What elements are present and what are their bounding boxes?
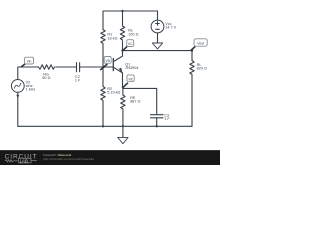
ground bottom [118,137,128,143]
svg-text:1 kHz: 1 kHz [26,87,36,91]
wire VC to Vout [123,51,193,61]
wire Rc branch [122,11,124,26]
svg-text:887 Ω: 887 Ω [130,100,140,104]
svg-text:Vin: Vin [27,60,32,64]
resistor R2 [101,67,105,126]
banner bar [0,150,220,165]
logo CircuitLab [5,154,38,164]
resistor R1 [101,30,105,44]
resistor RL [190,61,194,75]
junction node dots [16,10,193,128]
svg-text:1 F: 1 F [75,78,81,82]
wire RE branch [122,87,124,126]
svg-text:1 F: 1 F [164,117,170,121]
svg-text:2N3904: 2N3904 [125,66,138,70]
resistor RG [39,65,55,69]
flag VE [123,75,134,87]
wire C2 to base node [80,66,104,68]
svg-text:18 kΩ: 18 kΩ [107,36,117,40]
wire bottom rail [18,125,192,127]
svg-text:829 Ω: 829 Ω [197,66,207,70]
source V2 polarity arrow [16,95,19,98]
svg-text:5.19 kΩ: 5.19 kΩ [107,91,120,95]
wire V2 branch [17,67,19,126]
wire RE ground stub [122,126,124,137]
wire Vcc to ground [157,33,159,43]
transistor Q1 [112,59,114,71]
source V2 [11,80,24,93]
flag Vin [21,57,34,67]
source Vcc [151,20,164,33]
flag Vout [191,39,208,51]
resistor Rc [120,26,124,40]
svg-text:http://circuitlab.com/csmdwrbr: http://circuitlab.com/csmdwrbrsas23a [43,157,94,161]
wire RL bottom [191,75,193,127]
wire base to transistor [104,66,114,68]
capacitor C2 [77,63,80,72]
ground under Vcc [152,43,162,49]
svg-text:14.7 V: 14.7 V [165,26,176,30]
flag VB [100,57,111,71]
capacitor C3 [151,115,164,118]
wire emitter to C3 [123,88,157,114]
svg-text:50 Ω: 50 Ω [42,76,50,80]
flag VC [123,40,134,51]
svg-text:LAB: LAB [20,158,28,163]
svg-text:VE: VE [128,77,133,81]
wire input [18,66,77,68]
wire top rail [103,11,158,67]
resistor RE [121,95,125,109]
svg-text:VB: VB [105,59,110,63]
svg-text:100 Ω: 100 Ω [128,33,138,37]
wire C3 bottom [156,118,158,127]
svg-text:Vout: Vout [197,41,204,45]
svg-text:VC: VC [128,42,133,46]
